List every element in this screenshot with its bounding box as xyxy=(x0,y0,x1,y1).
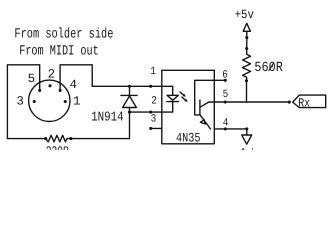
svg-text:2: 2 xyxy=(151,96,157,108)
node opto pin2 xyxy=(149,111,152,114)
wire diode bottom to opto pin2 xyxy=(130,111,162,113)
svg-text:From solder side: From solder side xyxy=(14,27,113,43)
J1 pin 1 dot xyxy=(64,100,67,103)
svg-text:+5v: +5v xyxy=(235,8,255,22)
U1 phototransistor collector to pin5 xyxy=(200,102,214,107)
U1 phototransistor emitter to pin4 xyxy=(200,115,211,129)
wire opto pin3 stub xyxy=(151,127,162,129)
svg-text:1N914: 1N914 xyxy=(91,111,124,126)
svg-text:4: 4 xyxy=(70,78,78,92)
resistor R1 220R zigzag xyxy=(46,135,71,142)
J1 pin 3 dot xyxy=(33,100,36,103)
U1 phototransistor base wire from pin6 xyxy=(195,80,215,115)
node diode top xyxy=(128,85,131,88)
tag Rx xyxy=(293,95,326,108)
J1 pin 5 dot xyxy=(38,89,41,92)
svg-text:1: 1 xyxy=(150,66,156,78)
U1 pin 5 rail xyxy=(214,101,289,103)
optocoupler U1 4N35 body xyxy=(162,70,215,144)
R1 terminal dot right xyxy=(69,137,72,140)
J1 pin 4 dot xyxy=(59,89,62,92)
power arrow symbol xyxy=(243,23,250,31)
R1 terminal dot left xyxy=(44,137,47,140)
svg-text:220R: 220R xyxy=(46,144,69,150)
wire DIN pin4 to opto pin1 xyxy=(60,65,162,91)
svg-text:3: 3 xyxy=(16,94,24,108)
node opto pin3 xyxy=(149,127,152,130)
U1 pin 6 stub xyxy=(214,79,225,81)
svg-text:Rx: Rx xyxy=(298,96,310,110)
diode D1 1N914 xyxy=(129,86,131,95)
svg-text:4N35: 4N35 xyxy=(176,130,201,145)
node Rx junction xyxy=(288,101,291,104)
wire +5v to resistor R2 xyxy=(246,38,248,49)
svg-text:1: 1 xyxy=(73,94,81,108)
wire resistor R2 to pin5 rail xyxy=(246,81,248,102)
svg-text:3: 3 xyxy=(151,113,157,125)
ground symbol xyxy=(242,135,252,144)
wire DIN pin5 loop to resistor R1 xyxy=(7,65,45,139)
emitter arrow head xyxy=(200,120,205,124)
wire bottom rail to diode node xyxy=(71,112,130,139)
svg-text:4: 4 xyxy=(223,118,229,130)
U1 light arrow 2 xyxy=(182,97,186,100)
svg-text:5: 5 xyxy=(223,89,229,101)
svg-text:2: 2 xyxy=(48,67,56,81)
U1 light arrow 1 xyxy=(180,92,184,95)
U1 phototransistor base bar xyxy=(199,100,201,115)
connector J1 DIN-5 shell xyxy=(29,80,70,121)
svg-text:From MIDI out: From MIDI out xyxy=(19,44,99,60)
U1 pin 4 rail to ground xyxy=(214,129,247,135)
U1 internal LED xyxy=(162,86,173,95)
svg-text:6: 6 xyxy=(222,70,228,82)
J1 pin 2 dot xyxy=(48,84,51,87)
node opto pin1 xyxy=(149,85,152,88)
svg-text:5: 5 xyxy=(28,72,36,86)
node diode bottom xyxy=(128,111,131,114)
resistor R2 560R xyxy=(245,47,248,50)
slashed zero mark in 560R xyxy=(269,63,274,70)
svg-text:Gnd: Gnd xyxy=(241,146,254,150)
svg-text:560R: 560R xyxy=(254,60,283,76)
